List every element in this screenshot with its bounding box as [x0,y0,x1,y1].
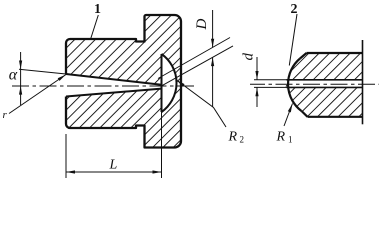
d dimension line upper with arrow [256,57,258,80]
d dimension line lower with arrow [256,87,258,107]
alpha dimension line [20,52,22,105]
D extension line lower [161,46,233,86]
leader r [9,75,66,114]
spherical seat chord line [161,54,163,112]
svg-text:L: L [109,158,118,173]
bore d bottom edge [287,86,363,88]
bore d top edge [287,79,363,81]
svg-text:1: 1 [288,135,293,145]
part 2 top edge [307,52,363,54]
svg-text:1: 1 [94,2,101,17]
part 1 outer outline [66,15,181,148]
svg-text:r: r [3,109,8,121]
conical bore top edge [66,74,162,85]
D extension line upper [158,38,230,79]
cone top edge extension (left of face, for angle alpha) [19,69,66,74]
L dimension right extension (continuation of chord) [161,112,163,178]
part 2 cut end line [362,40,364,124]
centerline part 2 [250,83,379,85]
svg-text:d: d [241,53,257,61]
alpha lower arrowhead [19,86,22,95]
leader of label 2 [289,14,297,66]
leader of label 1 [91,15,99,39]
part 2 shoulder chamfers [300,53,308,117]
leader R1 with arrowhead [284,104,293,127]
D dimension line lower with arrow [212,57,214,107]
part 2 bottom edge [308,116,363,118]
leader R2 (bent, arrow on seat arc) [177,80,227,127]
part 2 hatched section (nipple with ball end, minus bore d) [286,53,363,117]
alpha upper arrowhead [19,61,22,70]
bore d extension lines for dimension [254,79,287,81]
conical bore bottom edge [66,89,162,97]
centerline part 1 [12,85,195,87]
svg-text:D: D [194,19,210,31]
svg-text:R: R [276,130,286,145]
D dimension line upper with arrow [212,10,214,48]
svg-text:2: 2 [240,135,245,145]
spherical seat arc R2 [162,54,177,112]
L dimension line [66,171,162,173]
svg-text:α: α [9,67,18,84]
L dimension left extension [65,134,67,178]
svg-text:R: R [228,130,238,145]
part 2 outline: ball end R1 [288,59,301,112]
part 1 hatched section (body + head, minus conical bore, minus spherical seat void) [66,15,181,148]
arrowhead of leader r [58,75,66,81]
